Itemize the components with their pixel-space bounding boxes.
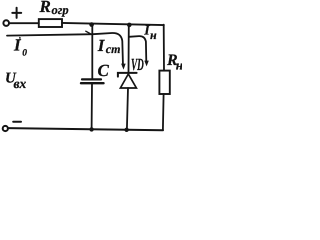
svg-text:R: R — [39, 0, 51, 16]
svg-text:VD: VD — [131, 55, 144, 74]
svg-text:н: н — [150, 28, 157, 42]
svg-text:н: н — [176, 58, 182, 73]
svg-text:вх: вх — [14, 76, 27, 91]
svg-text:0: 0 — [22, 49, 27, 59]
svg-text:огр: огр — [52, 3, 69, 17]
svg-text:C: C — [98, 61, 110, 80]
svg-text:ст: ст — [106, 42, 121, 56]
